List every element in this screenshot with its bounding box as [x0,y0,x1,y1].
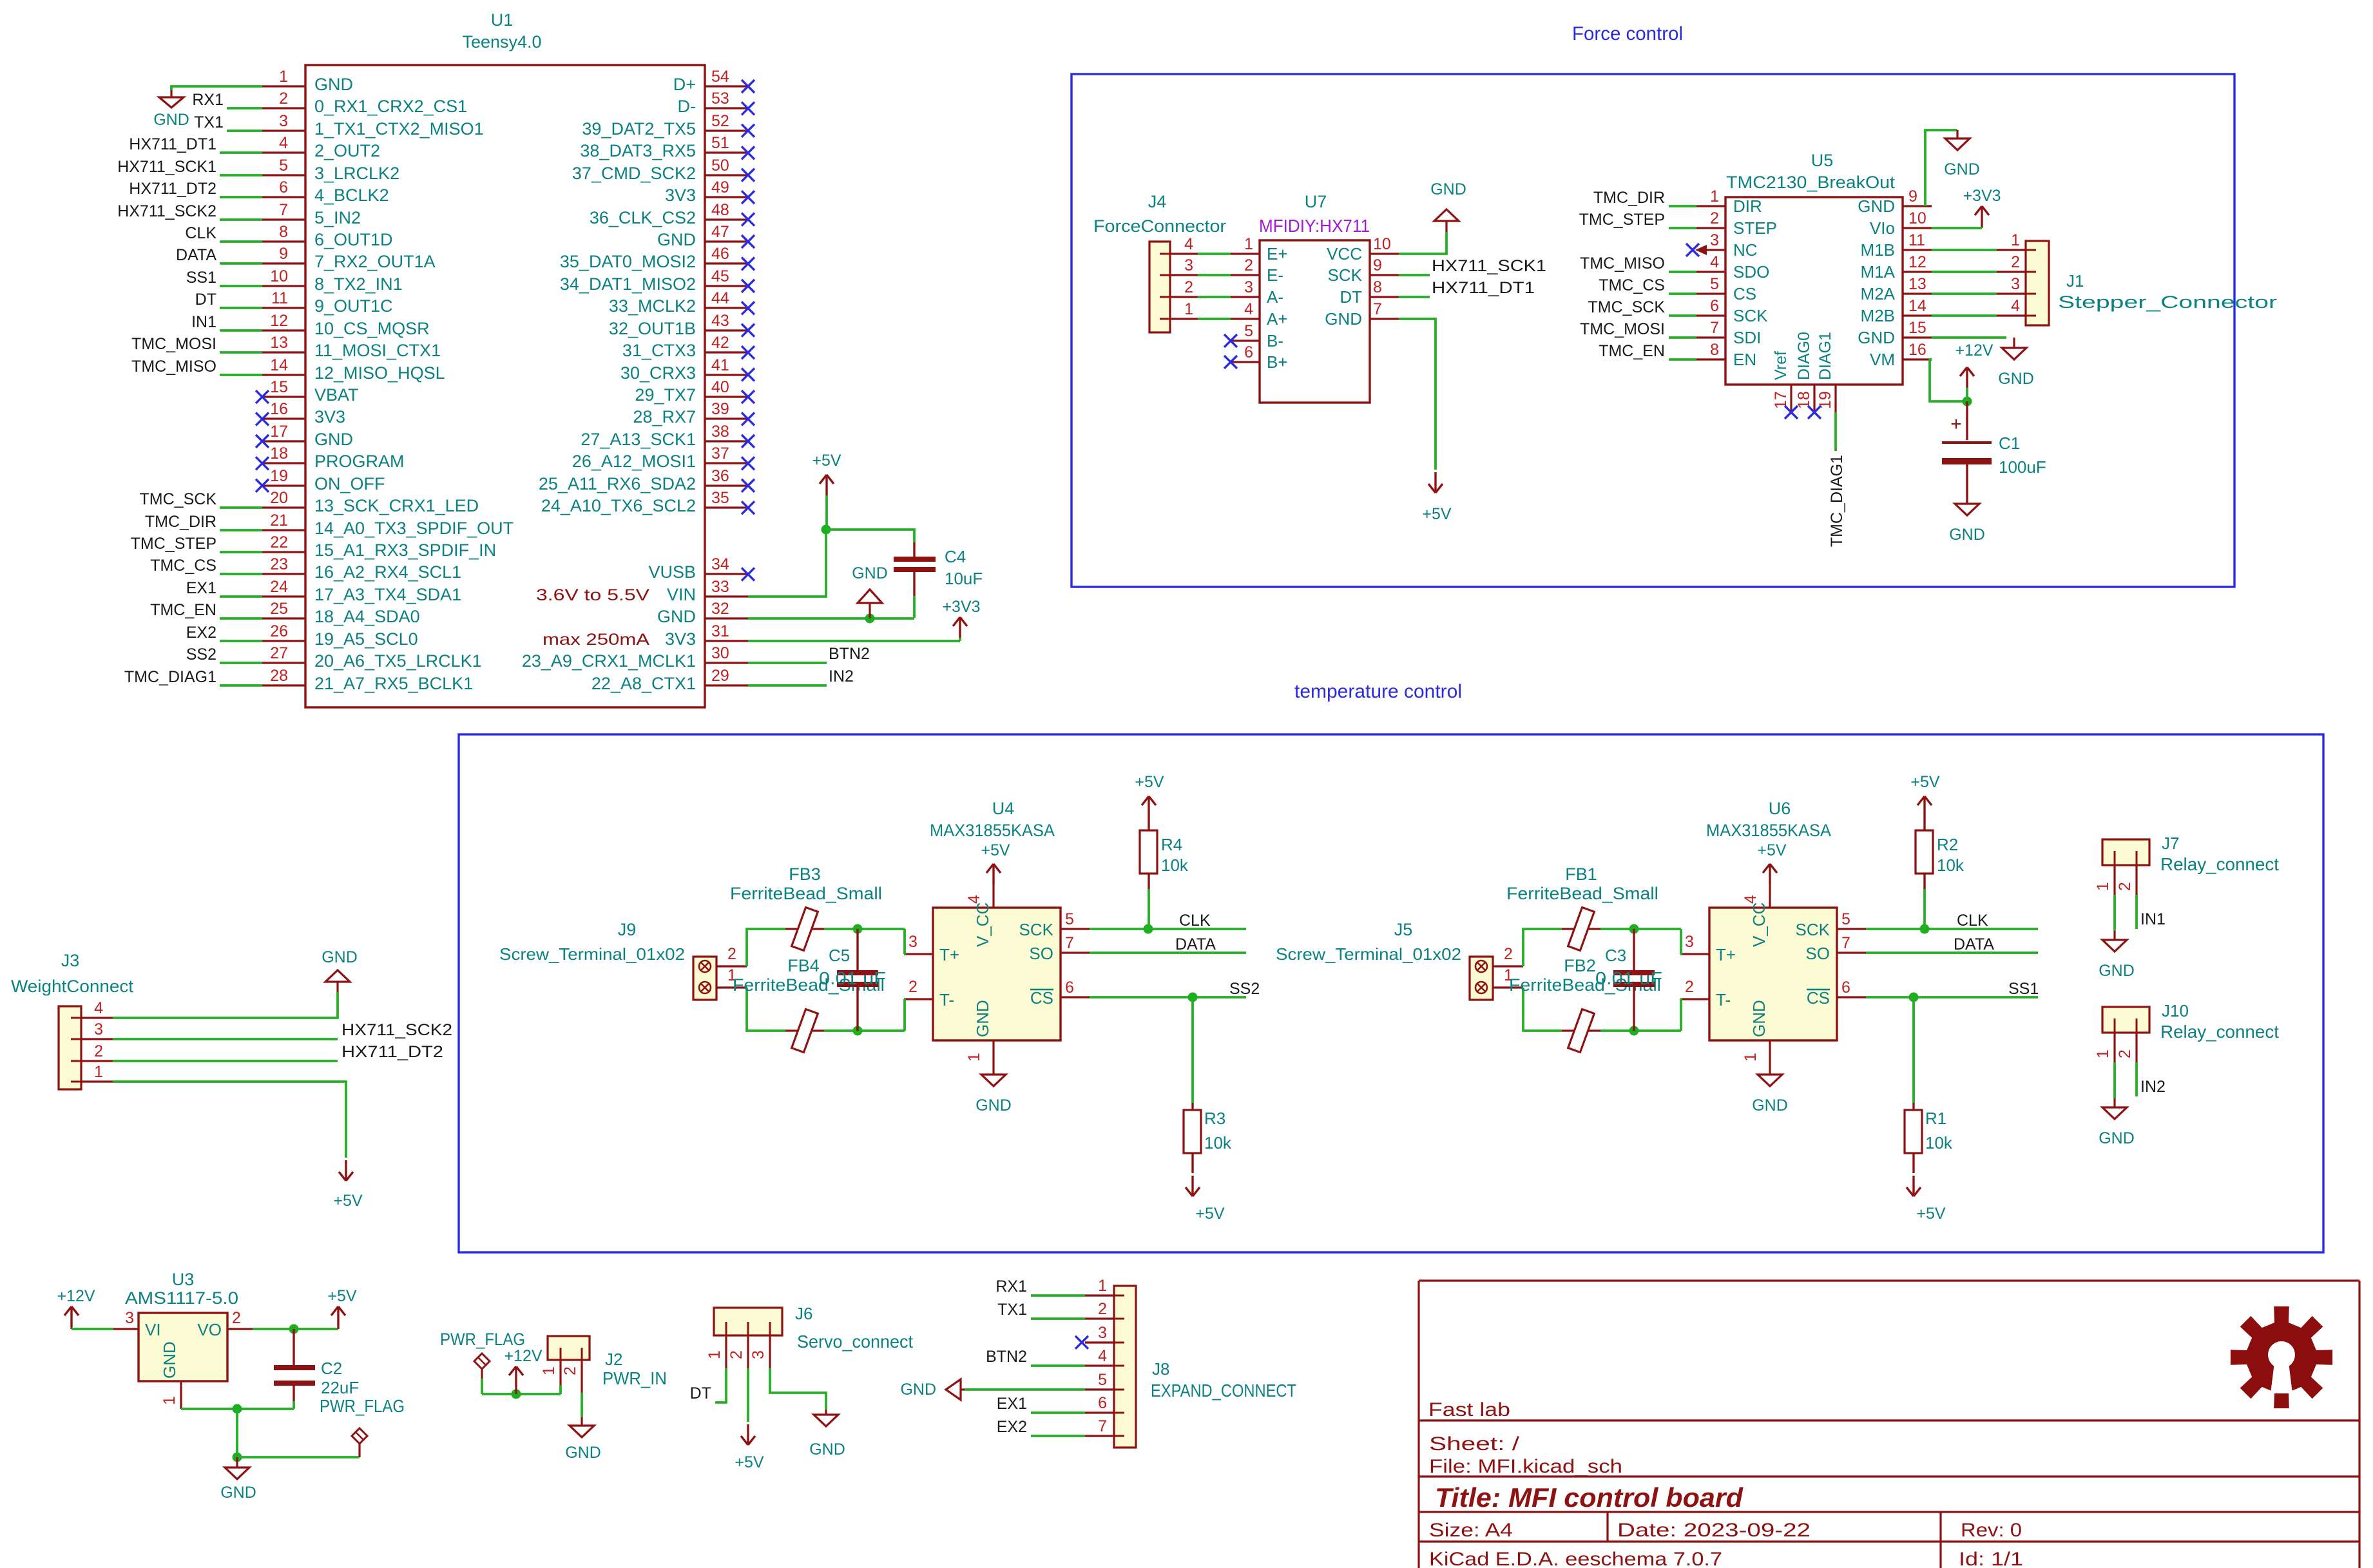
svg-text:36_CLK_CS2: 36_CLK_CS2 [590,208,696,227]
svg-text:15: 15 [270,378,288,396]
svg-text:+3V3: +3V3 [942,598,980,616]
svg-text:VIo: VIo [1870,218,1895,238]
svg-text:37: 37 [711,445,729,463]
svg-text:TMC_DIAG1: TMC_DIAG1 [1828,455,1846,547]
svg-text:3V3: 3V3 [665,186,696,205]
J6 pin 3 [769,1335,771,1368]
no-connect pin 35 [742,501,754,514]
svg-text:TMC_DIAG1: TMC_DIAG1 [124,668,216,686]
U7 pin 3 (A-) [1231,296,1260,298]
svg-text:25: 25 [270,600,288,618]
svg-text:max 250mA: max 250mA [543,631,649,649]
no-connect pin 45 [742,280,754,292]
svg-text:PROGRAM: PROGRAM [314,452,405,471]
svg-text:16: 16 [1908,341,1926,359]
J6 pin 1 [725,1335,727,1368]
J3 pin 2 [81,1060,113,1062]
U1 pin 51 (38_DAT3_RX5) [705,151,748,153]
U1 pin 5 (3_LRCLK2) [262,174,305,176]
wire to T- [904,999,905,1031]
svg-text:0.01 uF: 0.01 uF [819,968,886,988]
svg-text:MAX31855KASA: MAX31855KASA [1706,821,1831,840]
svg-text:Rev: 0: Rev: 0 [1961,1520,2022,1541]
U1 pin 44 (33_MCLK2) [705,307,748,309]
svg-text:TMC_SCK: TMC_SCK [1588,298,1666,316]
U1 pin 29 (22_A8_CTX1) [705,684,748,686]
svg-text:J2: J2 [605,1350,622,1369]
U3 pin 1 (GND) [180,1381,182,1409]
svg-text:23_A9_CRX1_MCLK1: 23_A9_CRX1_MCLK1 [522,651,696,671]
svg-text:43: 43 [711,312,729,330]
svg-text:16: 16 [270,400,288,418]
svg-text:FB1: FB1 [1565,865,1597,884]
U1 pin 26 (19_A5_SCL0) [262,640,305,642]
U1 pin 8 (6_OUT1D) [262,240,305,242]
svg-text:6_OUT1D: 6_OUT1D [314,230,393,249]
svg-text:KiCad E.D.A. eeschema 7.0.7: KiCad E.D.A. eeschema 7.0.7 [1429,1549,1722,1568]
svg-text:Screw_Terminal_01x02: Screw_Terminal_01x02 [499,944,685,964]
junction VM node [1963,397,1972,406]
no-connect pin 42 [742,346,754,359]
U1 pin 45 (34_DAT1_MISO2) [705,285,748,287]
svg-text:E-: E- [1267,265,1283,285]
svg-text:GND: GND [1949,526,1985,544]
no-connect pin 40 [742,390,754,403]
wire SS2 [220,662,262,664]
svg-text:2: 2 [2011,253,2020,271]
J1 pin 1 [1997,249,2026,251]
svg-text:51: 51 [711,134,729,152]
svg-text:ForceConnector: ForceConnector [1093,216,1226,236]
svg-text:+5V: +5V [327,1287,357,1305]
J7 pin 2 [2135,865,2137,895]
svg-text:TX1: TX1 [997,1301,1027,1319]
wire U5 GND pin9 up [1925,130,1957,206]
J7 pin 1 [2113,865,2115,895]
svg-text:1: 1 [965,1053,983,1062]
svg-text:FB2: FB2 [1564,956,1596,975]
wire 3V3 pin31 to +3V3 [748,640,960,642]
wire TMC_SCK [220,506,262,509]
junction cap top [853,924,863,934]
U1 pin 11 (9_OUT1C) [262,307,305,309]
svg-text:D+: D+ [673,75,696,94]
U5 pin 3 (NC) [1696,249,1725,251]
svg-text:2: 2 [727,945,736,963]
J9 pin 1 [716,986,747,988]
wire TMC_EN to U5 [1669,358,1696,361]
svg-text:C4: C4 [945,547,966,566]
svg-text:STEP: STEP [1733,218,1777,238]
power +5V above U6 [1763,864,1777,884]
U5 pin 12 (M1A) [1903,271,1932,272]
svg-text:IN1: IN1 [191,313,216,331]
U1 pin 1 (GND) [262,85,305,87]
Force control section box [1071,74,2234,587]
svg-text:FB3: FB3 [789,865,821,884]
svg-text:B-: B- [1267,331,1283,350]
no-connect pin 46 [742,257,754,270]
J3 pin 4 [81,1017,113,1018]
J8 pin 6 [1085,1411,1114,1413]
wire J6 pin1 to DT [715,1368,726,1402]
no-connect pin 50 [742,169,754,182]
svg-text:5: 5 [1710,275,1719,293]
svg-text:EN: EN [1733,350,1756,369]
svg-text:47: 47 [711,223,729,241]
J9 pin 2 [716,965,747,967]
svg-text:9: 9 [1373,256,1382,274]
svg-text:2: 2 [1098,1300,1107,1318]
svg-text:3: 3 [279,112,288,130]
svg-text:TX1: TX1 [194,113,224,131]
svg-text:J6: J6 [795,1304,812,1323]
svg-text:U1: U1 [491,10,514,30]
svg-text:SCK: SCK [1328,265,1363,285]
svg-text:8: 8 [1710,341,1719,359]
svg-text:53: 53 [711,90,729,108]
svg-text:32: 32 [711,600,729,618]
svg-text:J3: J3 [61,951,80,970]
wire U3 GND rail [181,1408,294,1410]
svg-text:12: 12 [1908,253,1926,271]
svg-text:10: 10 [1908,209,1926,227]
svg-text:D-: D- [678,97,697,116]
wire TMC_STEP to U5 [1669,227,1696,229]
svg-text:21: 21 [270,512,288,530]
wire rail to cap top [858,928,905,930]
svg-text:PWR_FLAG: PWR_FLAG [320,1396,405,1416]
power GND below C1 [1955,504,1979,515]
svg-text:J1: J1 [2066,271,2084,291]
svg-text:R3: R3 [1204,1109,1225,1128]
U1 pin 6 (4_BCLK2) [262,196,305,198]
wire DATA left [1090,951,1246,954]
U1 pin 21 (14_A0_TX3_SPDIF_OUT) [262,529,305,531]
svg-text:+5V: +5V [333,1192,363,1210]
svg-text:J9: J9 [618,920,637,939]
svg-text:33: 33 [711,578,729,596]
svg-text:PWR_IN: PWR_IN [602,1368,667,1388]
svg-text:+5V: +5V [1422,505,1452,523]
svg-text:18_A4_SDA0: 18_A4_SDA0 [314,607,420,626]
svg-text:GND: GND [1858,328,1895,347]
svg-text:CS: CS [1807,988,1830,1008]
junction VO/C2 [289,1324,299,1334]
wire DATA [220,262,262,265]
svg-text:19_A5_SCL0: 19_A5_SCL0 [314,629,418,649]
wire TMC_MOSI to U5 [1669,336,1696,339]
U1 pin 34 (VUSB) [705,573,748,575]
connector J6 Servo_connect body [714,1308,782,1335]
U1 pin 13 (11_MOSI_CTX1) [262,351,305,353]
svg-text:54: 54 [711,68,729,86]
U6 pin 1 (GND) [1769,1040,1771,1065]
U5 pin 9 (GND) [1903,205,1932,207]
U1 pin 15 (VBAT) [262,396,305,397]
capacitor C2 22uF [293,1329,294,1365]
svg-text:2: 2 [1184,278,1193,296]
J8 pin 4 [1085,1364,1114,1366]
U1 pin 47 (GND) [705,240,748,242]
no-connect U5 pin 17 [1785,406,1798,419]
wire J4-3 to U7 [1198,274,1231,276]
power +5V below J3 [339,1160,353,1181]
U6 pin 5 (SCK) [1837,928,1866,930]
wire TMC_DIR [220,529,262,531]
svg-text:V_CC: V_CC [1749,903,1769,947]
svg-text:3: 3 [749,1350,767,1359]
U5 pin 10 (VIo) [1903,227,1932,229]
svg-text:2: 2 [727,1350,745,1359]
wire top rail [747,929,780,966]
wire M2B to J1 [1932,314,1997,317]
wire U7 GND to +5V [1399,319,1436,470]
wire HX711_DT1 [1399,296,1430,298]
wire SS2 [1090,996,1246,999]
U5 pin 8 (EN) [1696,358,1725,360]
U1 pin 24 (17_A3_TX4_SDA1) [262,595,305,597]
svg-text:GND: GND [975,1096,1012,1114]
U1 pin 25 (18_A4_SDA0) [262,617,305,619]
svg-text:GND: GND [220,1484,256,1502]
svg-text:1: 1 [279,68,288,86]
svg-text:4: 4 [1244,300,1253,318]
svg-text:7: 7 [1710,319,1719,337]
connector J1 Stepper_Connector body [2026,241,2049,325]
no-connect pin 52 [742,124,754,137]
svg-text:CLK: CLK [185,224,216,242]
svg-text:+5V: +5V [1195,1205,1225,1223]
wire DATA right [1866,951,2038,954]
svg-text:CLK: CLK [1179,912,1211,930]
svg-text:15: 15 [1908,319,1926,337]
svg-text:3: 3 [94,1020,103,1038]
power GND below J7 [2113,931,2115,940]
svg-text:9_OUT1C: 9_OUT1C [314,296,393,316]
svg-text:2: 2 [1710,209,1719,227]
svg-text:B+: B+ [1267,352,1288,372]
svg-text:3: 3 [908,933,917,951]
J8 pin 7 [1085,1435,1114,1437]
svg-text:10uF: 10uF [945,569,983,588]
svg-text:16_A2_RX4_SCL1: 16_A2_RX4_SCL1 [314,562,461,582]
svg-text:DIAG0: DIAG0 [1795,332,1813,380]
svg-text:C5: C5 [829,946,850,965]
power GND below J6 [825,1410,827,1415]
svg-text:DATA: DATA [176,246,216,264]
svg-text:10k: 10k [1937,856,1965,875]
wire IN2 [748,684,827,687]
svg-text:TMC_MOSI: TMC_MOSI [1580,320,1665,338]
svg-text:12_MISO_HQSL: 12_MISO_HQSL [314,363,445,383]
svg-text:T-: T- [939,990,954,1009]
svg-text:GND: GND [900,1381,936,1399]
J8 pin 1 [1085,1294,1114,1296]
svg-text:+12V: +12V [57,1287,95,1305]
svg-text:GND: GND [322,948,358,966]
svg-text:HX711_DT2: HX711_DT2 [341,1043,443,1061]
IC U5 TMC2130_BreakOut body [1725,197,1903,385]
svg-text:24_A10_TX6_SCL2: 24_A10_TX6_SCL2 [541,496,696,515]
U1 pin 18 (PROGRAM) [262,462,305,464]
svg-text:GND: GND [160,1341,179,1379]
svg-text:IN2: IN2 [2140,1078,2166,1096]
svg-text:34_DAT1_MISO2: 34_DAT1_MISO2 [560,274,696,294]
svg-text:DT: DT [690,1384,711,1402]
capacitor C5 0.01uF [856,929,858,970]
svg-text:3: 3 [1244,278,1253,296]
svg-text:20_A6_TX5_LRCLK1: 20_A6_TX5_LRCLK1 [314,651,482,671]
svg-text:HX711_SCK2: HX711_SCK2 [117,202,216,220]
svg-text:+5V: +5V [1916,1205,1946,1223]
svg-text:100uF: 100uF [1999,457,2046,477]
wire C4 to GND net [913,596,916,618]
wire +5V rail to C4 [826,530,914,542]
svg-text:U5: U5 [1811,151,1834,170]
U5 pin 17 (Vref) [1790,385,1792,412]
svg-text:0_RX1_CRX2_CS1: 0_RX1_CRX2_CS1 [314,97,467,116]
svg-text:M1A: M1A [1861,262,1896,282]
U5 pin 11 (M1B) [1903,249,1932,251]
svg-text:14: 14 [1908,297,1926,315]
IC U6 MAX31855KASA body [1709,908,1837,1040]
U5 pin 2 (STEP) [1696,227,1725,229]
svg-text:8: 8 [279,223,288,241]
svg-text:31_CTX3: 31_CTX3 [622,341,696,360]
svg-text:GND: GND [314,430,353,449]
svg-text:HX711_SCK1: HX711_SCK1 [117,158,216,176]
resistor R3 10k [1191,997,1194,1103]
svg-text:U6: U6 [1769,799,1791,818]
wire HX711_DT2 net [113,1060,338,1062]
svg-text:IN1: IN1 [2140,910,2166,928]
svg-text:MAX31855KASA: MAX31855KASA [930,821,1055,840]
svg-text:J7: J7 [2162,834,2179,853]
U5 pin 7 (SDI) [1696,336,1725,338]
svg-text:DT: DT [1340,287,1362,307]
svg-text:VCC: VCC [1327,244,1362,263]
svg-text:7: 7 [1098,1417,1107,1435]
svg-text:2: 2 [279,90,288,108]
svg-text:U3: U3 [172,1270,195,1289]
J1 pin 3 [1997,292,2026,294]
junction GND rail [233,1404,242,1414]
svg-text:4: 4 [1184,235,1193,253]
svg-text:13: 13 [270,334,288,352]
svg-text:6: 6 [1098,1394,1107,1412]
wire HX711_SCK1 [1399,274,1430,276]
resistor R1 10k [1912,997,1915,1103]
svg-text:TMC_EN: TMC_EN [1599,342,1665,360]
J4 pin 2 [1170,296,1198,298]
svg-text:SCK: SCK [1733,306,1768,325]
svg-text:GND: GND [973,1000,992,1037]
svg-text:1: 1 [2011,231,2020,249]
connector J4 ForceConnector body [1149,242,1170,332]
connector J2 PWR_IN body [548,1336,590,1360]
no-connect pin 44 [742,301,754,314]
svg-text:2: 2 [232,1309,241,1327]
svg-text:25_A11_RX6_SDA2: 25_A11_RX6_SDA2 [539,474,696,493]
svg-text:CS: CS [1030,988,1053,1008]
U1 pin 27 (20_A6_TX5_LRCLK1) [262,662,305,664]
junction SS1/R1 [1909,993,1919,1002]
svg-text:GND: GND [2099,1129,2135,1147]
junction GND 2 [233,1453,242,1462]
svg-text:3: 3 [1710,231,1719,249]
svg-text:26: 26 [270,622,288,640]
svg-text:2: 2 [2116,1049,2134,1058]
svg-text:Fast lab: Fast lab [1428,1399,1510,1420]
svg-text:48: 48 [711,201,729,219]
U3 pin 2 (VO) [227,1328,253,1330]
svg-text:EX2: EX2 [186,624,216,642]
U4 pin 1 (GND) [992,1040,994,1065]
svg-text:J4: J4 [1148,192,1167,211]
connector J3 WeightConnect body [59,1006,81,1089]
svg-text:14: 14 [270,356,288,374]
U6 pin 4 (V_CC) [1769,887,1771,908]
wire TMC_MISO [220,374,262,376]
svg-text:3: 3 [1098,1324,1107,1342]
J8 pin 3 [1085,1341,1114,1343]
wire rail to cap top [1634,928,1681,930]
J8 pin 5 [1085,1388,1114,1390]
svg-text:10: 10 [1373,235,1391,253]
wire TX1 [227,129,262,132]
KiCad gear logo [2231,1306,2332,1408]
svg-text:SO: SO [1029,944,1053,963]
svg-text:+5V: +5V [1757,841,1787,859]
svg-text:GND: GND [657,230,696,249]
U5 pin 19 (DIAG1) [1834,385,1836,412]
svg-text:6: 6 [1065,979,1074,997]
svg-text:35_DAT0_MOSI2: 35_DAT0_MOSI2 [560,252,696,271]
svg-text:3: 3 [1184,256,1193,274]
wire TMC_MOSI [220,351,262,354]
svg-text:RX1: RX1 [995,1277,1027,1296]
svg-text:+12V: +12V [504,1347,542,1365]
U4 pin 7 (SO) [1061,951,1090,953]
svg-text:11: 11 [271,289,288,307]
U1 pin 20 (13_SCK_CRX1_LED) [262,506,305,508]
IC U1 Teensy4.0 body [305,65,705,707]
U7 pin 1 (E+) [1231,253,1260,254]
svg-text:DATA: DATA [1175,935,1216,953]
wire PWR_FLAG/+12V to J2 [482,1393,561,1395]
U5 pin 13 (M2A) [1903,292,1932,294]
svg-text:2: 2 [1244,256,1253,274]
svg-text:1: 1 [1098,1277,1107,1295]
svg-text:R1: R1 [1925,1109,1946,1128]
svg-text:13: 13 [1908,275,1926,293]
svg-text:3: 3 [125,1309,134,1327]
no-connect pin 39 [742,412,754,425]
svg-text:17_A3_TX4_SDA1: 17_A3_TX4_SDA1 [314,585,461,604]
J5 pin 2 [1493,965,1523,967]
svg-text:11: 11 [1908,231,1925,249]
U1 pin 46 (35_DAT0_MOSI2) [705,262,748,264]
svg-text:MFIDIY:HX711: MFIDIY:HX711 [1259,216,1370,236]
svg-text:GND: GND [2099,962,2135,980]
svg-text:1: 1 [706,1350,724,1359]
wire HX711_DT2 [220,196,262,198]
junction cap bottom [1629,1026,1639,1036]
no-connect pin 36 [742,479,754,492]
svg-text:1: 1 [1742,1053,1760,1062]
svg-text:TMC_MISO: TMC_MISO [131,358,216,376]
